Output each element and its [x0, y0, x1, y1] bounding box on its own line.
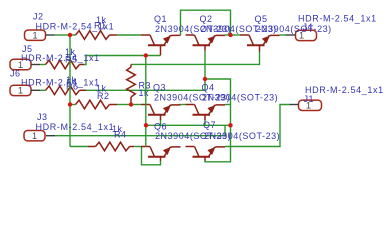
junction bus left	[144, 123, 148, 127]
wire node C to R6 row	[204, 79, 206, 90]
transistor Q6	[141, 146, 150, 148]
transistor Q7	[186, 146, 195, 148]
svg-text:J1: J1	[304, 94, 315, 104]
resistor R5	[46, 60, 80, 69]
transistor Q4	[186, 104, 195, 106]
resistor R6	[46, 86, 80, 95]
svg-text:Q3: Q3	[153, 83, 166, 93]
junction bus right	[228, 123, 232, 127]
svg-text:J4: J4	[303, 22, 314, 32]
connector J3	[24, 131, 45, 141]
transistor Q5	[240, 34, 249, 36]
svg-text:Q7: Q7	[203, 120, 216, 130]
connector J2	[25, 30, 46, 40]
svg-text:J3: J3	[37, 112, 48, 122]
svg-text:Q5: Q5	[255, 14, 268, 24]
junction node C	[203, 77, 207, 81]
wire base bus	[146, 124, 231, 126]
wire Q7 base loop	[205, 125, 231, 162]
junction node E	[129, 102, 133, 106]
pin lead J3	[46, 135, 55, 137]
wire node E to Q3 collector	[131, 104, 141, 106]
wire R6 to Q2 base net	[86, 89, 205, 91]
wire input bus vertical	[69, 35, 71, 147]
transistor Q2	[186, 34, 195, 36]
pin lead J1	[290, 104, 299, 106]
junction node A	[68, 33, 72, 37]
wire node D to R2	[70, 104, 76, 106]
wire Q4 base down	[204, 120, 206, 126]
svg-text:J6: J6	[10, 68, 21, 78]
svg-text:Q1: Q1	[154, 14, 167, 24]
junction Q1 base tap	[144, 53, 148, 57]
pin lead J6	[31, 89, 41, 91]
svg-text:R4: R4	[114, 130, 127, 140]
resistor R4	[88, 146, 96, 148]
resistor R1	[76, 31, 110, 40]
wire J3 jog up to bus	[224, 125, 226, 135]
wire Q3 emitter to Q4 collector	[180, 104, 186, 106]
wire Q3 base down	[160, 120, 162, 126]
wire Q2 base down	[204, 51, 206, 80]
connector J1	[299, 100, 322, 110]
svg-text:Q2: Q2	[200, 14, 213, 24]
wire Q1 emitter rail up	[181, 10, 231, 35]
svg-text:Q4: Q4	[202, 83, 215, 93]
connector J5	[10, 59, 31, 69]
wire node C to Q4 emitter column	[205, 79, 231, 125]
svg-text:HDR-M-2.54_1x1: HDR-M-2.54_1x1	[21, 53, 100, 63]
wire J2 to node A	[55, 34, 71, 36]
pin lead J4	[286, 34, 296, 36]
svg-text:2N3904(SOT-23): 2N3904(SOT-23)	[204, 131, 280, 141]
wire J6 to R6	[40, 89, 46, 91]
svg-text:1: 1	[32, 31, 37, 42]
svg-text:J2: J2	[33, 12, 44, 22]
connector J4	[296, 30, 317, 40]
resistor R2	[76, 100, 110, 109]
wire R4 to Q6 collector	[134, 146, 141, 148]
transistor Q3	[141, 104, 150, 106]
wire Q1 base to bus vertical	[145, 56, 147, 147]
junction node D	[68, 102, 72, 106]
svg-text:HDR-M-2.54_1x1: HDR-M-2.54_1x1	[36, 21, 115, 31]
wire Q5 base down	[131, 52, 260, 65]
svg-text:2N3904(SOT-23): 2N3904(SOT-23)	[256, 24, 332, 34]
transistor Q1	[141, 34, 150, 36]
junction node B	[228, 33, 232, 37]
wire Q5 emitter to J4	[280, 34, 286, 36]
wire J1 net	[225, 105, 290, 147]
wire R5 up to base row	[84, 56, 161, 65]
resistor R3 vertical	[130, 64, 132, 67]
pin lead J5	[31, 64, 40, 66]
wire Q2 emitter to node B	[225, 34, 231, 36]
svg-text:HDR-M-2.54_1x1: HDR-M-2.54_1x1	[21, 77, 100, 87]
svg-text:1: 1	[18, 86, 23, 97]
svg-text:HDR-M-2.54_1x1: HDR-M-2.54_1x1	[305, 85, 384, 95]
svg-text:Q6: Q6	[154, 122, 167, 132]
wire R1 to Q1 collector	[117, 34, 141, 36]
svg-text:2N3904(SOT-23): 2N3904(SOT-23)	[202, 93, 278, 103]
wire J3 run	[55, 135, 225, 137]
pin lead J2	[46, 34, 55, 36]
wire node A to R1	[70, 34, 76, 36]
svg-text:1k: 1k	[139, 88, 150, 98]
wire Q6 collector-base tie	[142, 147, 161, 165]
svg-text:1: 1	[32, 131, 37, 142]
wire Q4 emitter to column	[225, 104, 231, 106]
wire R4 feed	[70, 146, 88, 148]
connector J6	[10, 85, 31, 95]
wire J5 to R5	[40, 64, 46, 66]
svg-text:HDR-M-2.54_1x1: HDR-M-2.54_1x1	[36, 122, 115, 132]
wire R2 to node E	[117, 104, 131, 106]
svg-text:R2: R2	[97, 91, 110, 101]
wire node B to Q5 collector	[231, 34, 241, 36]
